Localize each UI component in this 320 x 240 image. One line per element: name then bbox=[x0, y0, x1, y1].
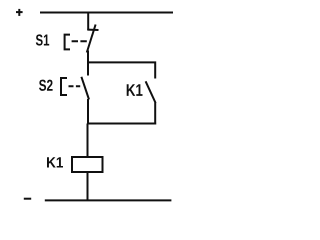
top supply rail bbox=[40, 12, 173, 14]
K1 coil label bbox=[47, 157, 63, 167]
wire: junction down to coil bbox=[87, 124, 89, 158]
S1 NC contact seat bbox=[87, 29, 98, 31]
merge junction wire bbox=[87, 123, 156, 125]
wire: K1 contact to merge junction bbox=[154, 103, 156, 125]
S1 actuator link (dashed) bbox=[72, 40, 87, 42]
K1 NO auxiliary contact moving blade bbox=[146, 81, 156, 103]
S2 push-button actuator bbox=[61, 78, 67, 95]
wire: S2 to merge junction bbox=[87, 99, 89, 124]
wire: coil to bottom rail bbox=[87, 172, 89, 201]
branch wire to K1 contact (upper) bbox=[88, 62, 155, 78]
S2 actuator link (dashed) bbox=[69, 85, 81, 87]
wire: S1 to S2 (through branch node) bbox=[87, 51, 89, 76]
S1 NC contact moving blade bbox=[87, 25, 96, 53]
plus terminal (+) bbox=[16, 9, 23, 16]
K1 contact label bbox=[127, 84, 143, 96]
S1 label bbox=[36, 34, 49, 45]
relay coil K1 bbox=[72, 157, 103, 172]
wire: top rail down to S1 contact bbox=[87, 13, 89, 31]
minus terminal (-) bbox=[24, 198, 31, 200]
S2 label bbox=[39, 80, 53, 91]
S1 push-button actuator bbox=[65, 35, 70, 50]
bottom supply rail bbox=[45, 199, 172, 201]
S2 NO contact moving blade bbox=[81, 77, 89, 100]
